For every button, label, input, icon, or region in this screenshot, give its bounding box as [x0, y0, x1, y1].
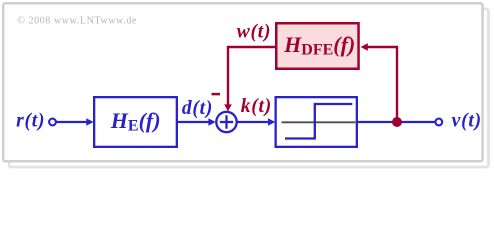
svg-text:r(t): r(t)	[16, 111, 45, 132]
svg-text:k(t): k(t)	[241, 96, 272, 117]
svg-text:© 2008 www.LNTwww.de: © 2008 www.LNTwww.de	[17, 16, 137, 27]
svg-text:v(t): v(t)	[452, 111, 482, 132]
svg-text:w(t): w(t)	[237, 22, 272, 43]
svg-text:d(t): d(t)	[182, 98, 213, 119]
